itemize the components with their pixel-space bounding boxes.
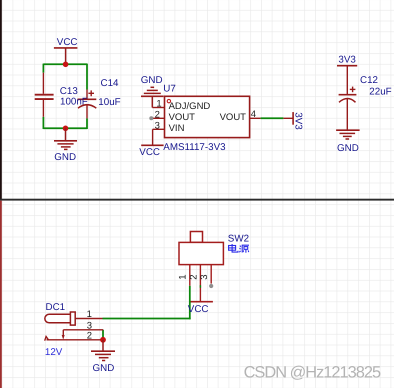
svg-text:C14: C14 — [101, 78, 120, 89]
svg-text:VCC: VCC — [57, 37, 78, 48]
svg-text:3V3: 3V3 — [292, 112, 303, 130]
svg-text:DC1: DC1 — [46, 302, 66, 313]
svg-text:CSDN @Hz1213825: CSDN @Hz1213825 — [244, 363, 381, 381]
svg-text:2: 2 — [155, 109, 160, 120]
svg-text:12V: 12V — [45, 347, 63, 358]
svg-text:100nF: 100nF — [60, 97, 88, 108]
svg-text:10uF: 10uF — [98, 97, 120, 108]
svg-text:1: 1 — [178, 274, 189, 279]
svg-text:GND: GND — [93, 363, 115, 374]
svg-text:4: 4 — [251, 109, 256, 120]
svg-text:ADJ/GND: ADJ/GND — [169, 101, 211, 112]
svg-text:VOUT: VOUT — [169, 112, 196, 123]
svg-text:3V3: 3V3 — [338, 55, 356, 66]
svg-text:C12: C12 — [360, 75, 378, 86]
svg-text:3: 3 — [199, 274, 210, 279]
svg-text:C13: C13 — [60, 86, 79, 97]
svg-text:GND: GND — [337, 143, 359, 154]
svg-text:GND: GND — [141, 75, 163, 86]
svg-text:VCC: VCC — [139, 147, 160, 158]
svg-text:VIN: VIN — [169, 123, 185, 134]
svg-text:VCC: VCC — [188, 304, 209, 315]
svg-text:2: 2 — [188, 274, 199, 279]
svg-text:1: 1 — [87, 309, 92, 320]
svg-text:AMS1117-3V3: AMS1117-3V3 — [163, 142, 226, 153]
svg-text:U7: U7 — [163, 83, 176, 94]
svg-text:SW2: SW2 — [228, 233, 249, 244]
svg-text:2: 2 — [87, 330, 92, 341]
svg-text:22uF: 22uF — [369, 86, 391, 97]
svg-text:1: 1 — [156, 99, 161, 110]
svg-text:3: 3 — [155, 120, 160, 131]
svg-text:VOUT: VOUT — [220, 112, 247, 123]
svg-text:GND: GND — [54, 152, 76, 163]
